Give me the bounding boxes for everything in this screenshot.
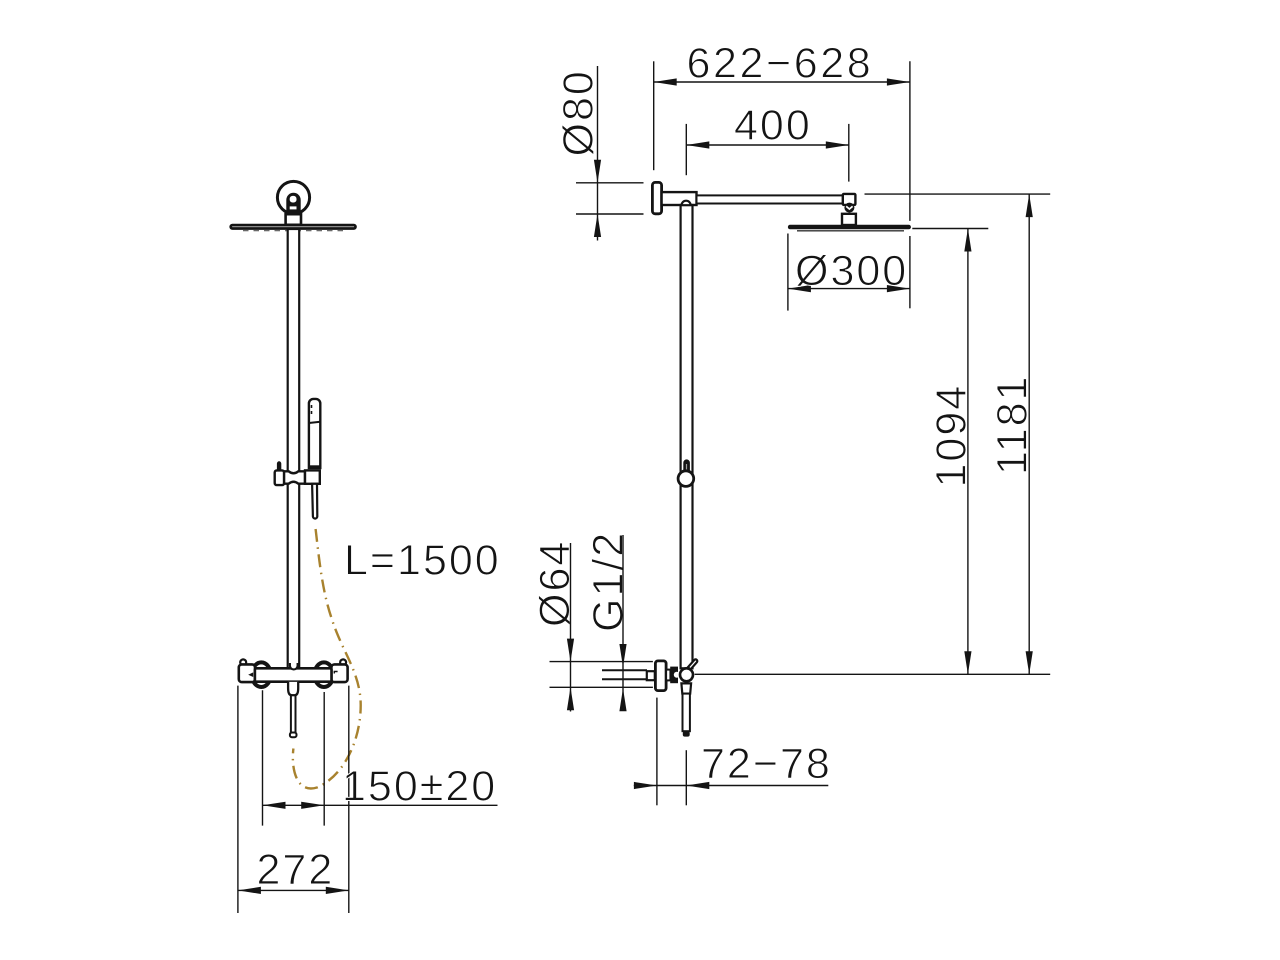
valve lever (688, 659, 697, 669)
dimension line 72-78 (634, 785, 829, 787)
svg-text:72−78: 72−78 (701, 740, 832, 788)
elbow ball joint (844, 203, 854, 213)
pipe joint ball (678, 471, 694, 487)
arrow 272 left (238, 887, 261, 894)
arrow 622 right (887, 78, 910, 85)
handle end line (309, 465, 320, 467)
arrow Ø300 right (887, 285, 910, 292)
dimension line 1181 (1028, 194, 1030, 674)
left ear screw (240, 659, 246, 664)
pipe-to-arm dome (682, 201, 691, 206)
mixer right end cap (331, 664, 347, 682)
mixer right handle (314, 662, 333, 687)
arrow 1094 top (964, 229, 971, 252)
hand shower handle (309, 399, 320, 468)
arrow Ø300 left (788, 285, 811, 292)
ext line disc level right (912, 228, 988, 230)
svg-text:Ø64: Ø64 (531, 540, 579, 627)
arrow 150 right (301, 802, 324, 809)
valve ball (680, 668, 693, 681)
ext line 400 left (685, 124, 687, 175)
Ø64 leader line (570, 543, 572, 712)
ext line arm level right (865, 193, 1051, 195)
arrow 72-78 left (points right) (634, 782, 657, 789)
arrow 272 right (326, 887, 349, 894)
svg-text:622−628: 622−628 (687, 40, 874, 88)
left temperature pointer (248, 672, 253, 677)
disc bottom face line (243, 230, 343, 232)
dimension line 272 (238, 889, 349, 891)
extension line below mixer far-left (237, 686, 239, 913)
Ø64 upper arrow (down) (567, 639, 574, 662)
svg-text:Ø300: Ø300 (795, 247, 908, 295)
arrow 72-78 right (points left) (686, 782, 709, 789)
valve escutcheon (side) (655, 661, 666, 691)
riser pipe (side) (681, 205, 693, 668)
valve body crescent (674, 672, 680, 678)
mixer body (255, 668, 332, 681)
ball joint ring (front view top) (277, 181, 309, 213)
ext line 72-78 left (656, 698, 658, 806)
svg-text:400: 400 (734, 102, 812, 150)
right ear screw (340, 659, 346, 664)
shower head disc (side, edge-on) (788, 225, 911, 230)
hand shower head/handle joint line (309, 422, 320, 423)
svg-text:L=1500: L=1500 (344, 537, 501, 585)
Ø80 lower arrow (up) (594, 214, 601, 237)
ext line 400 right (848, 124, 850, 182)
ext line 72-78 right (685, 750, 687, 805)
dimension line 622-628 (654, 81, 910, 83)
arrow 150 left (263, 802, 286, 809)
slider clamp around pipe (284, 471, 305, 483)
arrow 1181 top (1026, 194, 1033, 217)
extension line below mixer far-right (348, 686, 350, 913)
Ø80 leader line upper (597, 66, 599, 241)
mixer left end cap (239, 664, 255, 682)
svg-text:1181: 1181 (989, 375, 1037, 475)
Ø64 lower arrow (up) (567, 687, 574, 710)
slider knob pin (277, 461, 281, 470)
slider bracket (left) (275, 470, 284, 485)
valve inlet stub (666, 670, 670, 681)
svg-text:272: 272 (257, 846, 335, 894)
Ø80 upper arrow (down) (594, 160, 601, 183)
outlet tube end cap (290, 733, 297, 738)
G1/2 upper arrow (down) (619, 644, 626, 667)
head connector stem (842, 214, 856, 225)
shower arm tube (697, 195, 844, 203)
G1/2 leader line (622, 535, 624, 703)
right indicator mark (334, 671, 338, 674)
arrow 400 right (826, 141, 849, 148)
ext line valve level right (695, 673, 1051, 675)
arrow 400 left (686, 141, 709, 148)
svg-text:G1/2: G1/2 (585, 531, 633, 632)
holder seat below ball (681, 683, 691, 693)
holder outlet tube (312, 484, 317, 519)
disc bottom face line (side) (797, 230, 904, 232)
mixer outlet shoulder (288, 682, 298, 695)
arrow 1094 bottom (964, 651, 971, 674)
arrow 1181 bottom (1026, 651, 1033, 674)
arrow 622 left (654, 78, 677, 85)
hand shower holder cup (305, 470, 320, 483)
head neck (front) (286, 214, 301, 225)
mixer left handle (252, 662, 271, 687)
Ø64 tick bottom (550, 686, 653, 688)
svg-text:150±20: 150±20 (342, 763, 497, 811)
extension line below mixer inner-left (262, 690, 264, 825)
wall flange (arm escutcheon) (652, 182, 661, 213)
dimension line 1094 (967, 229, 969, 675)
dimension line Ø300 (788, 288, 910, 290)
svg-text:1094: 1094 (928, 384, 976, 488)
G1/2 lower arrow (up) (619, 688, 626, 711)
holder pin (side) (683, 459, 690, 471)
extension line below mixer inner-right (323, 692, 325, 826)
svg-text:Ø80: Ø80 (555, 69, 603, 156)
valve inlet nipple lines (602, 670, 647, 679)
pipe end cap into body (290, 663, 298, 669)
outlet tube (front) (291, 695, 296, 732)
holder tube (side) (683, 694, 690, 732)
Ø64 tick top (550, 661, 653, 663)
Ø80 tick top (576, 182, 644, 184)
holder tube end cap (683, 731, 690, 736)
flexible hose L=1500 (dash-dot) (293, 529, 361, 788)
shower arm thick segment (662, 192, 697, 205)
shower head disc (front, edge-on) (231, 225, 356, 228)
spray face dots (311, 405, 313, 414)
Ø80 tick bottom (576, 213, 644, 215)
ext line 622-628 left (653, 61, 655, 170)
ext line 622-628/Ø300 right upper (909, 61, 911, 221)
dimension line 400 (686, 144, 849, 146)
ball joint keyhole insert (286, 193, 300, 213)
nipple end cap (647, 671, 655, 680)
dimension line 150±20 (263, 804, 498, 806)
valve body block (670, 667, 678, 684)
riser pipe (front) (288, 229, 300, 668)
arm elbow fitting (843, 194, 856, 205)
ext line Ø300 right lower (909, 236, 911, 308)
ext line Ø300 left (787, 234, 789, 311)
